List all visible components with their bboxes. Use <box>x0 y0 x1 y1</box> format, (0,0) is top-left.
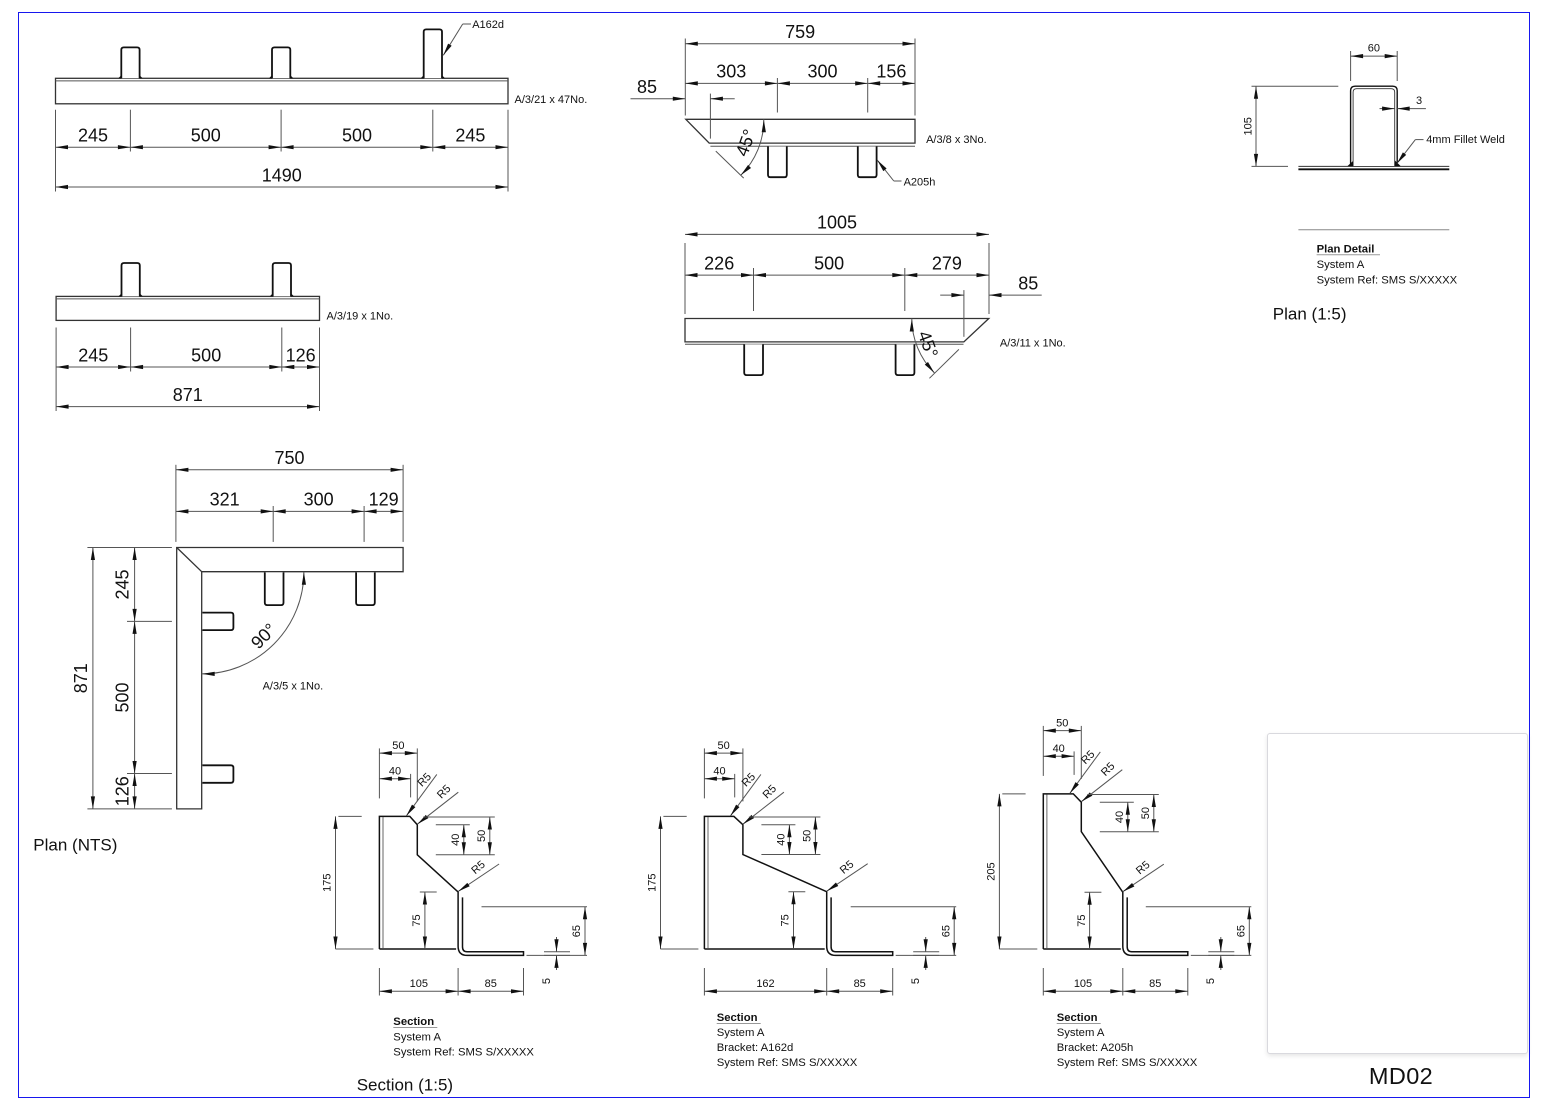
L-plan top extension lines <box>176 465 403 542</box>
svg-text:50: 50 <box>476 830 488 842</box>
dimension 40 top S1 System A <box>379 765 410 797</box>
svg-text:R5: R5 <box>1079 748 1097 766</box>
leader 4mm fillet weld <box>1395 134 1505 165</box>
section profile S1 System A <box>379 816 523 955</box>
label A/3/5 x 1No. <box>263 681 324 693</box>
svg-text:175: 175 <box>647 874 659 892</box>
stud tab 1 on A/3/8 <box>768 147 787 178</box>
angle text 45 A/3/8 <box>732 127 760 159</box>
section profile S3 bracket A205h <box>1043 794 1188 956</box>
svg-text:Plan (NTS): Plan (NTS) <box>33 836 117 855</box>
dimension 60 plan detail <box>1351 43 1398 81</box>
svg-text:105: 105 <box>410 978 428 990</box>
L-plan angle bar outline <box>177 548 403 809</box>
fillet weld symbol right <box>1395 160 1401 166</box>
dimension 3 wall thickness <box>1380 95 1426 111</box>
bottom extension lines S1 System A <box>379 968 523 996</box>
svg-text:5: 5 <box>1205 978 1217 984</box>
section profile S2 bracket A162d <box>704 816 892 955</box>
dimension 75 S3 bracket A205h <box>1076 892 1102 949</box>
angle text 45 A/3/11 <box>914 328 942 360</box>
dimension row 226/500/279 <box>685 253 989 277</box>
svg-text:50: 50 <box>1140 807 1152 819</box>
dimension 65 S1 System A <box>482 907 588 956</box>
dimension 871 <box>56 385 319 409</box>
svg-text:156: 156 <box>876 62 906 82</box>
label A/3/11 x 1No. <box>1000 338 1066 350</box>
dimension 759 <box>685 22 915 46</box>
svg-text:Section: Section <box>717 1012 758 1024</box>
svg-text:Bracket: A162d: Bracket: A162d <box>717 1042 794 1054</box>
svg-text:303: 303 <box>716 62 746 82</box>
L-plan bottom tab 1 <box>265 572 284 605</box>
dimension 105/85 bottom S1 System A <box>379 978 523 993</box>
svg-text:A/3/8 x 3No.: A/3/8 x 3No. <box>926 134 987 146</box>
svg-text:A/3/21 x 47No.: A/3/21 x 47No. <box>515 94 588 106</box>
svg-text:System A: System A <box>1057 1027 1105 1039</box>
svg-text:1490: 1490 <box>262 165 302 185</box>
svg-text:85: 85 <box>485 978 497 990</box>
dimension 85 A/3/8 <box>631 77 735 101</box>
R5 leader upper S2 bracket A162d <box>729 771 761 817</box>
R5 leader lower S3 bracket A205h <box>1080 760 1122 803</box>
svg-text:1005: 1005 <box>817 213 857 233</box>
dimension 175 left S2 bracket A162d <box>647 816 699 949</box>
R5 leader upper S1 System A <box>405 771 437 817</box>
svg-text:85: 85 <box>1018 273 1038 293</box>
svg-text:A162d: A162d <box>472 19 504 31</box>
svg-text:75: 75 <box>780 914 792 926</box>
svg-text:50: 50 <box>392 740 404 752</box>
svg-text:R5: R5 <box>416 771 434 789</box>
svg-text:750: 750 <box>274 448 304 468</box>
label A/3/8 x 3No. <box>926 134 987 146</box>
stud tab 1 on A/3/19 <box>119 263 143 296</box>
stud tab 2 on A/3/11 <box>896 344 915 375</box>
fillet weld symbol left <box>1347 161 1353 166</box>
svg-text:50: 50 <box>802 830 814 842</box>
extension lines A/3/11 <box>685 243 989 337</box>
bar A/3/8 body <box>686 119 915 146</box>
dimension 40 right S2 bracket A162d <box>761 825 820 855</box>
dimension 871 vertical <box>71 548 95 809</box>
sheet number MD02 <box>1331 1063 1471 1090</box>
view title Plan (1:5) <box>1273 305 1347 324</box>
dimension row 245/500/126 <box>56 345 319 369</box>
svg-text:50: 50 <box>717 740 729 752</box>
bar A/3/19 body <box>56 296 319 320</box>
dimension 105 plan detail <box>1243 86 1339 166</box>
svg-text:40: 40 <box>389 765 401 777</box>
dimension row 245/500/500/245 <box>56 126 509 150</box>
dimension 50 right S3 bracket A205h <box>1087 795 1159 832</box>
svg-text:4mm Fillet Weld: 4mm Fillet Weld <box>1426 134 1505 146</box>
dimension 40 right S1 System A <box>436 825 495 855</box>
svg-text:60: 60 <box>1368 43 1380 55</box>
svg-text:75: 75 <box>1076 914 1088 926</box>
svg-text:500: 500 <box>113 682 133 712</box>
R5 leader knee S1 System A <box>457 859 499 894</box>
dimension 1005 <box>685 213 989 237</box>
svg-text:500: 500 <box>191 126 221 146</box>
L-plan side tab 2 <box>202 765 233 783</box>
R5 leader lower S2 bracket A162d <box>742 783 784 826</box>
extension lines A/3/8 <box>685 39 915 139</box>
angle text 90 <box>247 619 280 652</box>
svg-text:Section (1:5): Section (1:5) <box>357 1076 453 1095</box>
svg-text:Bracket: A205h: Bracket: A205h <box>1057 1042 1134 1054</box>
stud tab 1 on A/3/11 <box>744 344 763 375</box>
svg-text:759: 759 <box>785 22 815 42</box>
dimension 50 right S2 bracket A162d <box>749 817 821 855</box>
dimension 40 top S2 bracket A162d <box>704 765 734 797</box>
svg-text:300: 300 <box>807 62 837 82</box>
bottom extension lines S2 bracket A162d <box>704 968 892 996</box>
svg-text:500: 500 <box>191 345 221 365</box>
dimension row 303/300/156 <box>685 62 915 86</box>
svg-text:Plan Detail: Plan Detail <box>1317 243 1375 255</box>
L-plan side tab 1 <box>202 613 233 631</box>
svg-text:A/3/11 x 1No.: A/3/11 x 1No. <box>1000 338 1066 350</box>
svg-text:245: 245 <box>455 126 485 146</box>
svg-text:R5: R5 <box>469 859 487 877</box>
dimension 162/85 bottom S2 bracket A162d <box>704 978 892 993</box>
svg-text:A/3/19 x 1No.: A/3/19 x 1No. <box>327 311 394 323</box>
svg-text:126: 126 <box>286 345 316 365</box>
svg-text:105: 105 <box>1074 978 1092 990</box>
svg-text:90°: 90° <box>247 619 280 652</box>
R5 leader knee S3 bracket A205h <box>1122 859 1164 894</box>
svg-text:40: 40 <box>713 765 725 777</box>
bar A/3/11 body <box>685 319 989 345</box>
plan detail base plate lines <box>1298 166 1449 169</box>
dimension 5 lip S2 bracket A162d <box>910 937 939 984</box>
dimension 40 right S3 bracket A205h <box>1100 802 1159 832</box>
svg-text:300: 300 <box>304 490 334 510</box>
leader and label A162d <box>442 19 504 56</box>
svg-text:5: 5 <box>910 978 922 984</box>
R5 leader upper S3 bracket A205h <box>1068 748 1100 794</box>
svg-text:500: 500 <box>342 126 372 146</box>
svg-text:System Ref: SMS S/XXXXX: System Ref: SMS S/XXXXX <box>393 1047 534 1059</box>
R5 leader lower S1 System A <box>416 783 458 826</box>
svg-text:126: 126 <box>113 776 133 806</box>
svg-text:40: 40 <box>450 834 462 846</box>
L-plan left extension lines <box>87 548 171 809</box>
svg-text:A205h: A205h <box>904 176 936 188</box>
svg-text:245: 245 <box>78 345 108 365</box>
svg-text:System Ref: SMS S/XXXXX: System Ref: SMS S/XXXXX <box>717 1057 858 1069</box>
dimension 50 right S1 System A <box>423 817 495 855</box>
dimension 50 top S1 System A <box>379 740 417 802</box>
dimension 50 top S3 bracket A205h <box>1043 717 1081 779</box>
section label block S1 System A <box>393 1016 534 1059</box>
section label block S3 bracket A205h <box>1057 1012 1198 1069</box>
svg-text:System A: System A <box>1317 259 1365 271</box>
svg-text:105: 105 <box>1243 117 1255 135</box>
view title Plan (NTS) <box>33 836 117 855</box>
svg-text:321: 321 <box>210 490 240 510</box>
svg-text:279: 279 <box>932 253 962 273</box>
L-plan bottom tab 2 <box>356 572 375 605</box>
dimension row 321/300/129 <box>176 490 403 514</box>
stud tab 2 on A/3/21 <box>269 47 293 78</box>
svg-text:40: 40 <box>1114 811 1126 823</box>
dimension 5 lip S3 bracket A205h <box>1205 937 1234 984</box>
dimension 65 S3 bracket A205h <box>1146 907 1252 956</box>
svg-text:226: 226 <box>704 253 734 273</box>
label A/3/21 x 47No. <box>515 94 588 106</box>
stud tab 3 on A/3/21 <box>421 29 445 78</box>
dimension 65 S2 bracket A162d <box>851 907 957 956</box>
svg-text:65: 65 <box>1236 925 1248 937</box>
dimension 5 lip S1 System A <box>541 937 570 984</box>
bottom extension lines S3 bracket A205h <box>1043 968 1188 996</box>
svg-text:75: 75 <box>411 914 423 926</box>
svg-text:871: 871 <box>173 385 203 405</box>
svg-text:Section: Section <box>393 1016 434 1028</box>
svg-text:R5: R5 <box>838 858 856 876</box>
bar A/3/21 body <box>56 78 509 104</box>
svg-text:System A: System A <box>717 1027 765 1039</box>
label A/3/19 x 1No. <box>327 311 394 323</box>
stud tab 2 on A/3/8 <box>858 147 877 178</box>
svg-text:871: 871 <box>71 663 91 693</box>
45-degree angle arc A/3/8 <box>739 119 766 176</box>
svg-text:Plan (1:5): Plan (1:5) <box>1273 305 1347 324</box>
45-degree angle arc A/3/11 <box>910 319 936 375</box>
svg-text:85: 85 <box>637 77 657 97</box>
svg-text:129: 129 <box>369 490 399 510</box>
svg-text:System A: System A <box>393 1031 441 1043</box>
svg-text:245: 245 <box>113 569 133 599</box>
dimension 40 top S3 bracket A205h <box>1043 743 1074 775</box>
extension lines for A/3/21 dims <box>56 110 509 192</box>
svg-text:85: 85 <box>854 978 866 990</box>
svg-text:System Ref: SMS S/XXXXX: System Ref: SMS S/XXXXX <box>1317 274 1458 286</box>
dimension 750 <box>176 448 403 472</box>
dimension 85 A/3/11 <box>940 273 1041 297</box>
stud tab 2 on A/3/19 <box>270 263 294 296</box>
svg-text:500: 500 <box>814 253 844 273</box>
svg-text:65: 65 <box>571 925 583 937</box>
svg-text:50: 50 <box>1056 717 1068 729</box>
section label block S2 bracket A162d <box>717 1012 858 1069</box>
square tube section in plan detail <box>1351 86 1398 166</box>
dimension 50 top S2 bracket A162d <box>704 740 743 802</box>
svg-text:205: 205 <box>986 862 998 880</box>
svg-text:65: 65 <box>940 925 952 937</box>
stud tab 1 on A/3/21 <box>118 47 142 78</box>
svg-text:System Ref: SMS S/XXXXX: System Ref: SMS S/XXXXX <box>1057 1057 1198 1069</box>
separator line below plan detail <box>1298 229 1449 231</box>
plan detail title block <box>1317 243 1458 286</box>
45-degree construction line A/3/8 <box>716 151 744 178</box>
svg-text:40: 40 <box>776 833 788 845</box>
svg-text:3: 3 <box>1416 95 1422 107</box>
svg-text:R5: R5 <box>1134 859 1152 877</box>
leader and label A205h <box>876 159 936 189</box>
dimension 105/85 bottom S3 bracket A205h <box>1043 978 1188 993</box>
dimension 175 left S1 System A <box>322 816 374 949</box>
svg-text:5: 5 <box>541 978 553 984</box>
svg-text:245: 245 <box>78 126 108 146</box>
90-degree angle arc <box>202 572 306 676</box>
title card <box>1267 733 1528 1055</box>
view title Section (1:5) <box>357 1076 453 1095</box>
dimension 75 S2 bracket A162d <box>780 892 806 949</box>
45-degree construction line A/3/11 <box>929 349 959 378</box>
svg-text:A/3/5 x 1No.: A/3/5 x 1No. <box>263 681 324 693</box>
dimension 75 S1 System A <box>411 892 437 949</box>
dimension 205 left S3 bracket A205h <box>986 794 1038 949</box>
svg-text:40: 40 <box>1053 743 1065 755</box>
svg-text:175: 175 <box>322 874 334 892</box>
dimension row 245/500/126 vertical <box>113 548 137 809</box>
svg-text:162: 162 <box>756 978 774 990</box>
extension lines for A/3/19 dims <box>56 328 319 412</box>
R5 leader knee S2 bracket A162d <box>826 858 868 893</box>
svg-text:85: 85 <box>1149 978 1161 990</box>
svg-text:Section: Section <box>1057 1012 1098 1024</box>
dimension 1490 <box>56 165 509 189</box>
